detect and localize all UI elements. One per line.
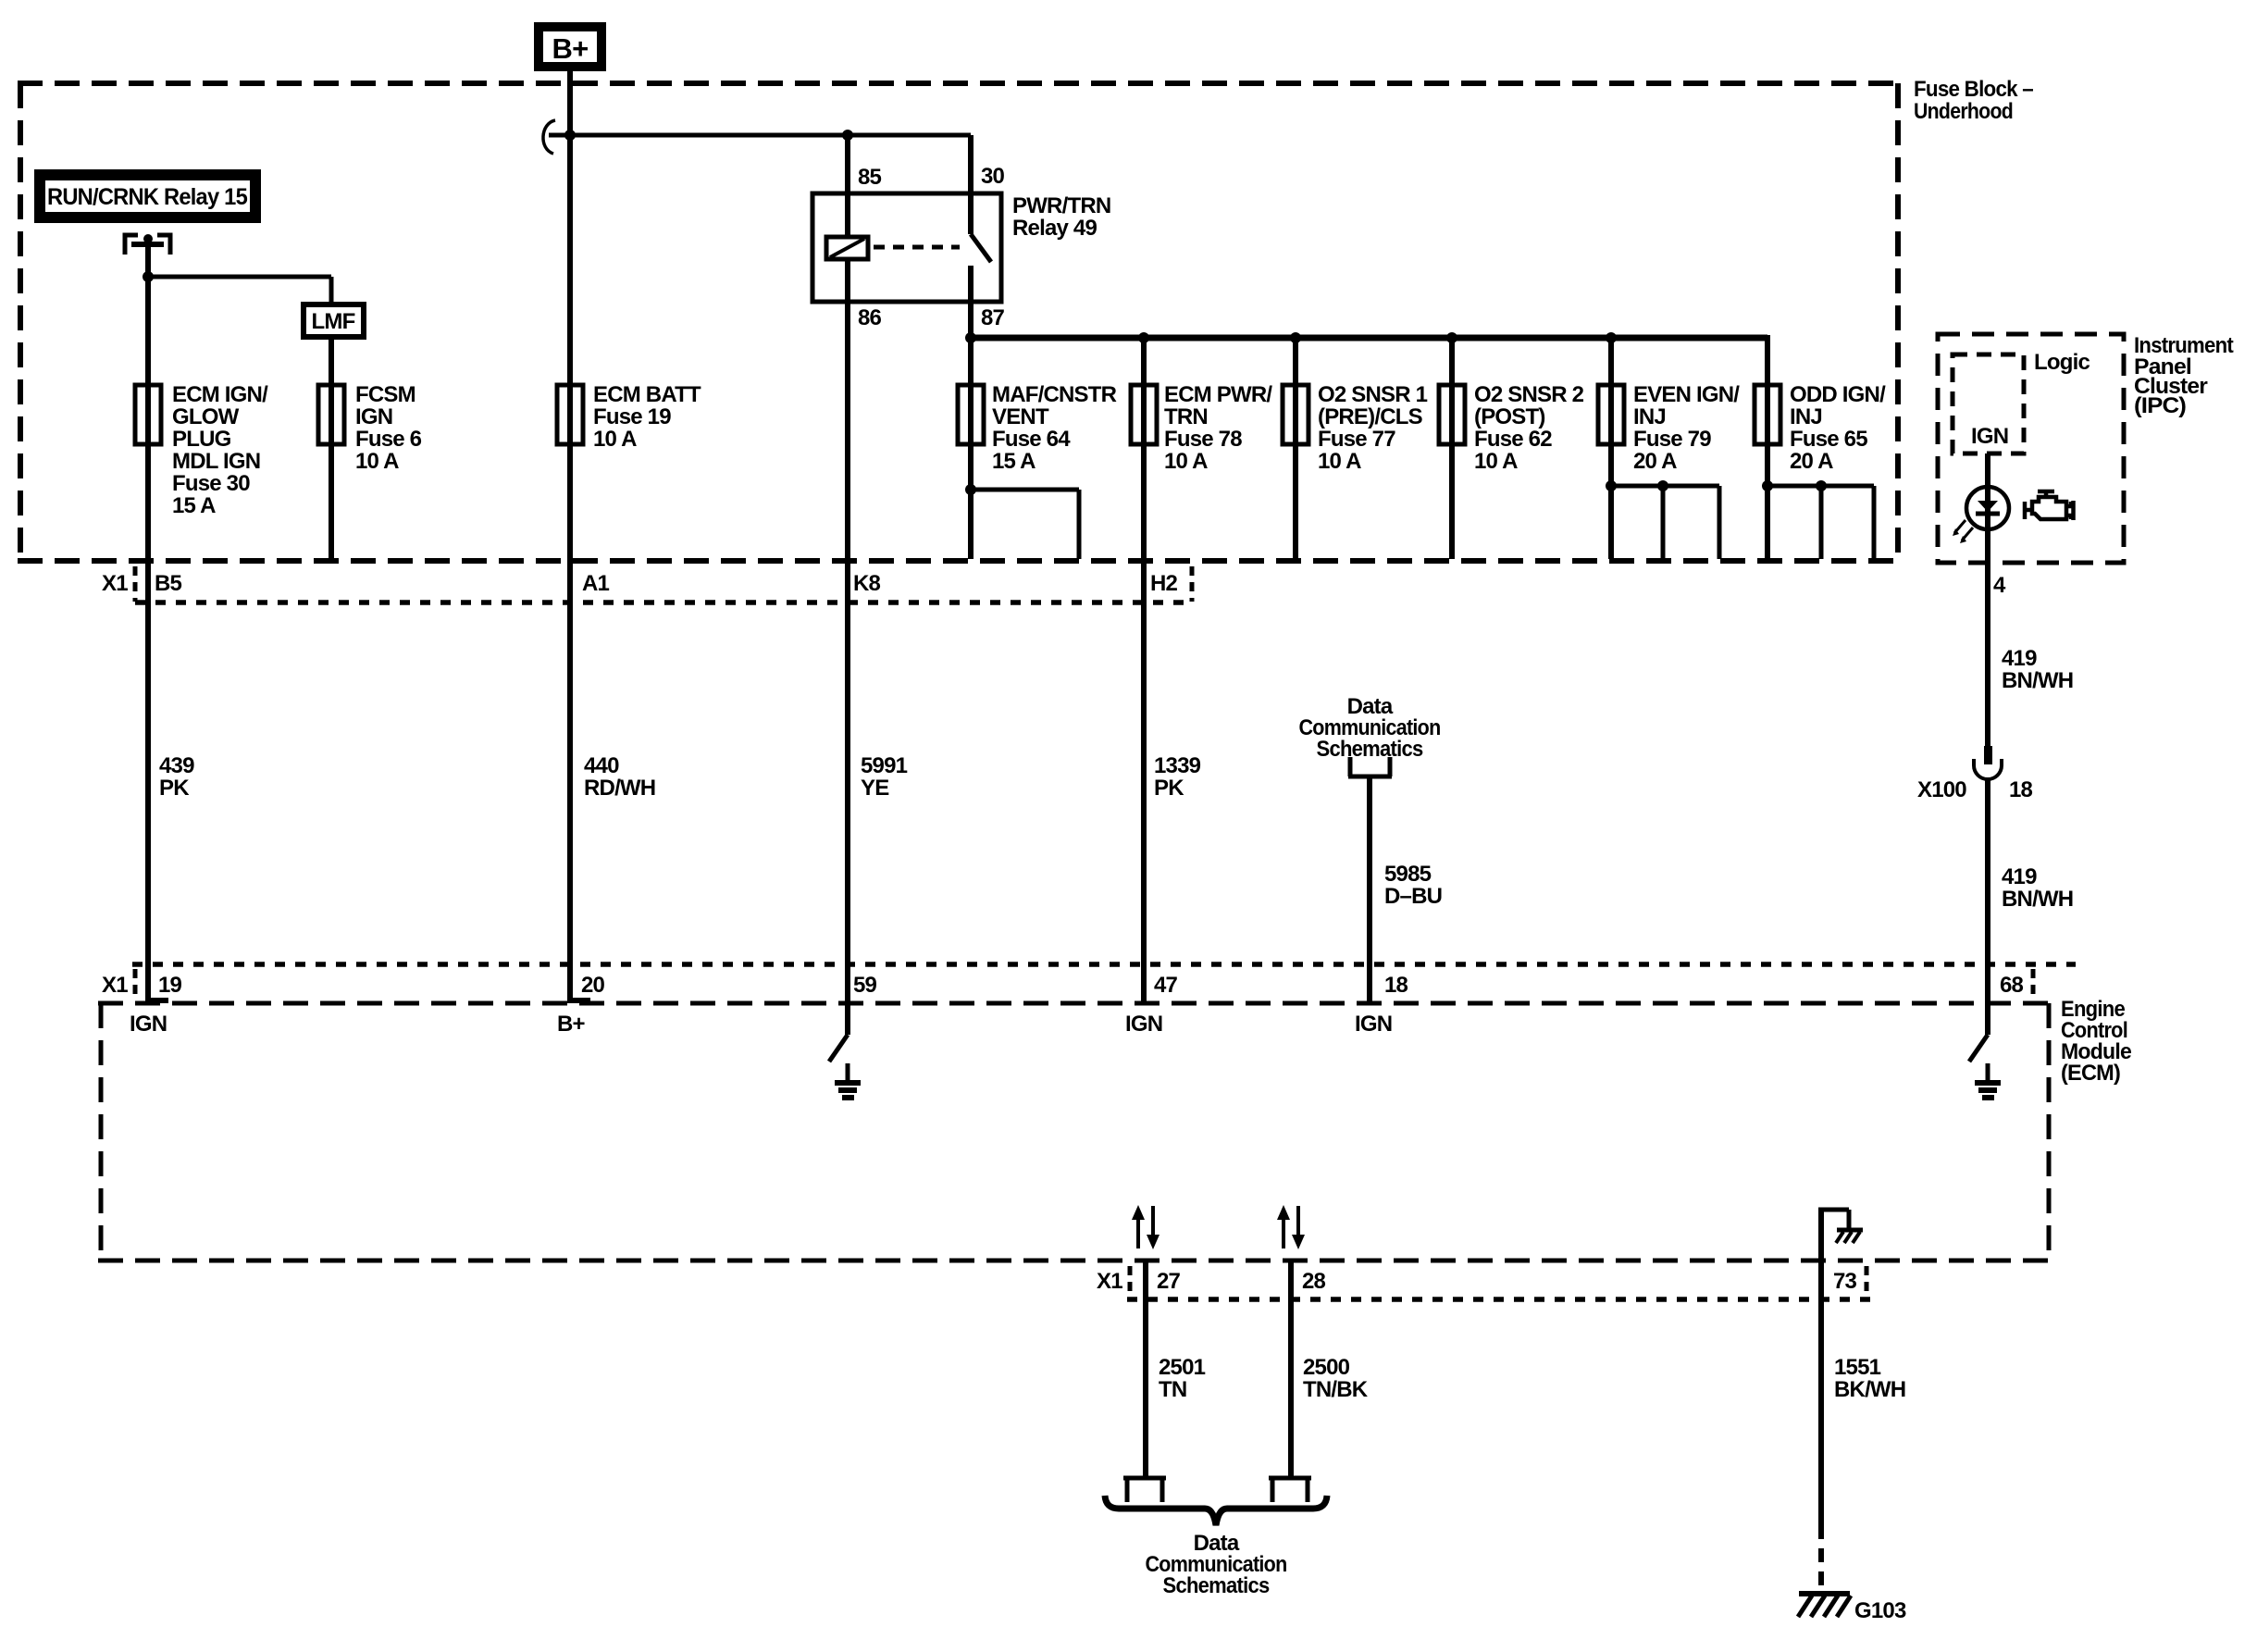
- svg-text:10 A: 10 A: [1164, 449, 1208, 474]
- svg-text:A1: A1: [582, 571, 610, 596]
- svg-text:IGN: IGN: [1125, 1012, 1162, 1037]
- svg-text:2500: 2500: [1303, 1355, 1350, 1380]
- svg-text:419: 419: [2002, 646, 2037, 671]
- svg-text:19: 19: [158, 973, 182, 998]
- svg-text:419: 419: [2002, 864, 2037, 889]
- svg-text:IGN: IGN: [355, 404, 392, 429]
- svg-text:X1: X1: [102, 571, 128, 596]
- svg-text:Fuse 78: Fuse 78: [1164, 427, 1242, 452]
- svg-text:PK: PK: [159, 776, 190, 801]
- svg-text:B5: B5: [155, 571, 182, 596]
- svg-text:MDL IGN: MDL IGN: [172, 449, 260, 474]
- svg-text:Fuse 6: Fuse 6: [355, 427, 422, 452]
- svg-text:Fuse 62: Fuse 62: [1474, 427, 1552, 452]
- svg-text:15 A: 15 A: [992, 449, 1035, 474]
- svg-text:D–BU: D–BU: [1384, 884, 1442, 909]
- svg-text:O2 SNSR 1: O2 SNSR 1: [1318, 382, 1428, 407]
- svg-text:FCSM: FCSM: [355, 382, 415, 407]
- svg-text:85: 85: [858, 165, 882, 190]
- svg-text:PK: PK: [1154, 776, 1184, 801]
- svg-text:18: 18: [2009, 777, 2033, 802]
- svg-text:Relay 49: Relay 49: [1012, 216, 1097, 241]
- svg-text:10 A: 10 A: [593, 427, 637, 452]
- svg-text:Fuse 64: Fuse 64: [992, 427, 1071, 452]
- svg-text:30: 30: [981, 164, 1005, 189]
- svg-text:1551: 1551: [1834, 1355, 1881, 1380]
- svg-text:18: 18: [1384, 973, 1408, 998]
- svg-text:20 A: 20 A: [1790, 449, 1833, 474]
- svg-text:Fuse 19: Fuse 19: [593, 404, 671, 429]
- svg-text:5985: 5985: [1384, 862, 1432, 887]
- svg-text:2501: 2501: [1159, 1355, 1206, 1380]
- svg-text:EVEN IGN/: EVEN IGN/: [1633, 382, 1740, 407]
- svg-text:15 A: 15 A: [172, 493, 216, 518]
- svg-text:10 A: 10 A: [1318, 449, 1361, 474]
- svg-text:H2: H2: [1150, 571, 1178, 596]
- svg-text:LMF: LMF: [312, 309, 355, 334]
- svg-text:47: 47: [1154, 973, 1178, 998]
- svg-text:MAF/CNSTR: MAF/CNSTR: [992, 382, 1117, 407]
- svg-text:439: 439: [159, 753, 194, 778]
- svg-text:Fuse 30: Fuse 30: [172, 471, 250, 496]
- svg-text:86: 86: [858, 305, 882, 330]
- svg-text:10 A: 10 A: [1474, 449, 1518, 474]
- svg-text:TN: TN: [1159, 1377, 1186, 1402]
- svg-text:PLUG: PLUG: [172, 427, 231, 452]
- svg-text:87: 87: [981, 305, 1005, 330]
- svg-text:ECM PWR/: ECM PWR/: [1164, 382, 1272, 407]
- svg-text:YE: YE: [861, 776, 889, 801]
- svg-text:IGN: IGN: [130, 1012, 167, 1037]
- svg-text:Fuse Block –: Fuse Block –: [1914, 77, 2033, 102]
- svg-text:RD/WH: RD/WH: [584, 776, 655, 801]
- svg-text:20: 20: [581, 973, 605, 998]
- svg-text:59: 59: [853, 973, 877, 998]
- svg-text:Logic: Logic: [2034, 350, 2090, 375]
- svg-text:Fuse 79: Fuse 79: [1633, 427, 1711, 452]
- svg-text:(PRE)/CLS: (PRE)/CLS: [1318, 404, 1423, 429]
- svg-text:Schematics: Schematics: [1317, 737, 1423, 762]
- svg-text:ECM IGN/: ECM IGN/: [172, 382, 268, 407]
- svg-text:BK/WH: BK/WH: [1834, 1377, 1905, 1402]
- svg-text:ODD IGN/: ODD IGN/: [1790, 382, 1886, 407]
- svg-text:TN/BK: TN/BK: [1303, 1377, 1369, 1402]
- svg-text:X1: X1: [1097, 1269, 1122, 1294]
- svg-text:B+: B+: [557, 1012, 586, 1037]
- svg-text:27: 27: [1157, 1269, 1181, 1294]
- svg-text:73: 73: [1833, 1269, 1857, 1294]
- svg-text:X100: X100: [1917, 777, 1966, 802]
- svg-text:GLOW: GLOW: [172, 404, 240, 429]
- svg-text:(POST): (POST): [1474, 404, 1545, 429]
- svg-text:INJ: INJ: [1633, 404, 1666, 429]
- svg-text:(IPC): (IPC): [2134, 393, 2186, 418]
- svg-text:BN/WH: BN/WH: [2002, 668, 2073, 693]
- svg-text:VENT: VENT: [992, 404, 1049, 429]
- svg-text:20 A: 20 A: [1633, 449, 1677, 474]
- svg-text:TRN: TRN: [1164, 404, 1208, 429]
- svg-text:68: 68: [2000, 973, 2024, 998]
- svg-text:Fuse 65: Fuse 65: [1790, 427, 1867, 452]
- svg-text:O2 SNSR 2: O2 SNSR 2: [1474, 382, 1584, 407]
- svg-text:B+: B+: [552, 32, 589, 65]
- svg-text:IGN: IGN: [1355, 1012, 1392, 1037]
- svg-text:(ECM): (ECM): [2061, 1061, 2120, 1086]
- svg-text:BN/WH: BN/WH: [2002, 887, 2073, 912]
- svg-text:4: 4: [1993, 573, 2006, 598]
- svg-text:ECM BATT: ECM BATT: [593, 382, 701, 407]
- svg-text:1339: 1339: [1154, 753, 1201, 778]
- svg-text:Fuse 77: Fuse 77: [1318, 427, 1395, 452]
- svg-text:X1: X1: [102, 973, 128, 998]
- svg-text:K8: K8: [853, 571, 881, 596]
- svg-text:28: 28: [1302, 1269, 1326, 1294]
- svg-text:5991: 5991: [861, 753, 908, 778]
- svg-text:440: 440: [584, 753, 619, 778]
- svg-text:Schematics: Schematics: [1163, 1573, 1270, 1598]
- svg-text:PWR/TRN: PWR/TRN: [1012, 193, 1110, 218]
- svg-text:INJ: INJ: [1790, 404, 1822, 429]
- svg-text:RUN/CRNK Relay 15: RUN/CRNK Relay 15: [47, 184, 248, 210]
- svg-text:IGN: IGN: [1971, 424, 2008, 449]
- svg-text:G103: G103: [1854, 1598, 1906, 1623]
- svg-text:Underhood: Underhood: [1914, 99, 2013, 124]
- svg-text:10 A: 10 A: [355, 449, 399, 474]
